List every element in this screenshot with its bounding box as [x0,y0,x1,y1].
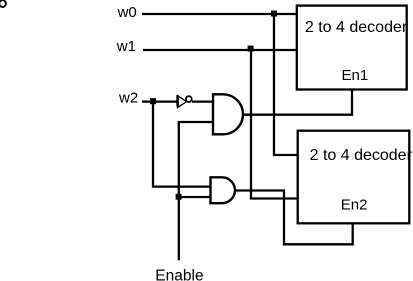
wire w1 horizontal to decoder 1 [143,49,297,51]
stray letter o (top-left corner) [0,0,6,7]
junction dot on w0 [271,11,277,17]
wire w2 horizontal to inverter [142,100,178,102]
wire Enable vertical riser [179,122,213,260]
inverter triangle on w2 [178,96,187,108]
svg-text:2 to 4 decoder: 2 to 4 decoder [310,147,413,164]
junction dot on w2 [150,98,156,104]
inverter triangle left edge (bold) [176,95,179,106]
svg-text:w0: w0 [117,4,137,21]
wire w1 drop to decoder 2 [251,50,298,199]
decoder box U1 [297,6,407,90]
wire w0 horizontal to decoder 1 [142,13,297,15]
AND gate G2 (bottom) [211,177,235,203]
inverter bubble [186,96,192,102]
svg-text:w1: w1 [116,38,136,55]
wire G2 output to En2 [235,191,353,245]
junction dot on w1 [248,46,254,52]
svg-text:Enable: Enable [155,268,203,281]
wire G1 output to En1 [243,90,352,115]
svg-text:En2: En2 [341,197,368,214]
AND gate G1 (top) [213,94,243,134]
decoder box U2 [298,131,410,224]
svg-text:2 to 4 decoder: 2 to 4 decoder [305,19,408,36]
wire w0 drop to decoder 2 [274,14,298,155]
wire inverter output to AND gate G1 [192,100,213,102]
junction dot on Enable [176,194,182,200]
svg-text:En1: En1 [342,67,369,84]
svg-text:w2: w2 [118,89,138,106]
wire Enable to AND gate G2 input [179,196,211,198]
wire w2 drop to AND gate G2 input [153,102,211,187]
